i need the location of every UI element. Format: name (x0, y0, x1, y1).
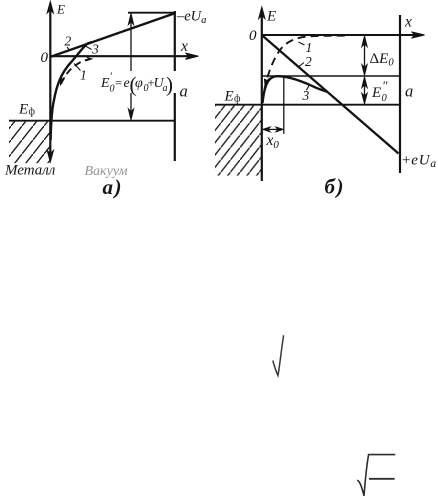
arrowhead of dashed curve 1 (panel b) (264, 77, 270, 88)
metal hatching (panel b) (215, 106, 262, 176)
line -eUa (panel a) (50, 13, 176, 57)
x axis (panel b) (262, 32, 425, 38)
line x=a (panel a) (174, 11, 176, 161)
E_F level line (panel a) (9, 120, 175, 122)
svg-text:0: 0 (41, 50, 49, 66)
svg-text:а): а) (103, 175, 124, 199)
svg-text:–eUa: –eUa (176, 9, 206, 27)
solid curve 2-3 (panel b) (263, 76, 328, 103)
svg-text:E″0: E″0 (371, 78, 388, 104)
dashed curve 1 (panel a) (61, 59, 89, 84)
svg-text:Eф: Eф (18, 102, 36, 118)
arrowhead of dashed curve 1 (panel a) (60, 77, 66, 87)
thin vertical line at x0 (panel b) (283, 77, 285, 134)
svg-text:a: a (405, 82, 413, 101)
svg-text:x: x (180, 38, 188, 55)
solid curve 2-3 (panel a) (51, 42, 93, 140)
dashed curve 1 (panel b) (264, 36, 347, 90)
svg-text:Eф: Eф (224, 89, 242, 105)
svg-text:x0: x0 (266, 132, 280, 151)
svg-text:E: E (56, 1, 65, 16)
svg-text:2: 2 (65, 34, 72, 49)
E_F level line (panel b) (215, 104, 400, 106)
tick of label 3 (panel b) (306, 85, 309, 91)
tick of label 2 (panel a) (67, 47, 70, 51)
tick of label 1 (panel a) (74, 64, 81, 71)
svg-text:+eUa: +eUa (402, 153, 437, 171)
svg-text:2: 2 (305, 54, 312, 69)
dimension arrow x0 (panel b) (263, 127, 283, 132)
dimension arrow E0'' (panel b) (362, 77, 367, 104)
top reference line (panel a) (128, 12, 176, 14)
svg-text:E: E (266, 9, 276, 25)
radical sign fragment 2 (with vinculum and bar) (357, 455, 395, 496)
svg-text:x: x (404, 14, 412, 31)
svg-text:0: 0 (249, 28, 257, 44)
tick of label 1 (panel b) (299, 42, 305, 45)
tick of label 3 (panel a) (86, 46, 92, 50)
E axis (panel a) (47, 2, 53, 163)
svg-text:3: 3 (91, 42, 99, 57)
metal hatching (panel a) (9, 122, 50, 164)
svg-text:1: 1 (80, 68, 87, 83)
line x=a (panel b) (399, 15, 401, 173)
svg-text:1: 1 (306, 40, 313, 55)
E axis (panel b) (259, 7, 265, 181)
svg-text:б): б) (325, 175, 345, 199)
x axis (panel a) (50, 53, 199, 59)
peak level reference line (panel b) (262, 75, 400, 77)
radical sign fragment 1 (273, 335, 284, 375)
svg-text:a: a (180, 81, 188, 100)
svg-text:Металл: Металл (4, 163, 56, 179)
tick of label 2 (panel b) (299, 63, 305, 67)
dimension arrow dE0 (panel b) (362, 36, 367, 75)
line +eUa (panel b) (262, 35, 399, 153)
dimension arrow E0' (panel a) (128, 14, 133, 120)
formula E0' background (panel a) (100, 71, 178, 93)
svg-text:3: 3 (302, 88, 310, 103)
svg-text:ΔE0: ΔE0 (370, 51, 395, 69)
end arrowhead of dashed curve 1 (panel a) (86, 57, 94, 62)
